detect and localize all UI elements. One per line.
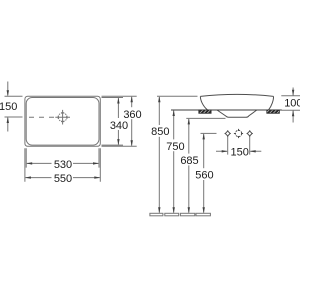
- svg-text:340: 340: [110, 120, 128, 132]
- svg-text:150: 150: [0, 101, 17, 113]
- svg-text:850: 850: [151, 126, 169, 138]
- svg-text:685: 685: [180, 155, 198, 167]
- svg-text:150: 150: [231, 147, 249, 159]
- svg-text:550: 550: [54, 173, 72, 185]
- svg-text:360: 360: [123, 109, 141, 121]
- svg-text:750: 750: [166, 141, 184, 153]
- svg-text:100: 100: [284, 98, 300, 110]
- svg-text:530: 530: [54, 159, 72, 171]
- svg-text:560: 560: [195, 170, 213, 182]
